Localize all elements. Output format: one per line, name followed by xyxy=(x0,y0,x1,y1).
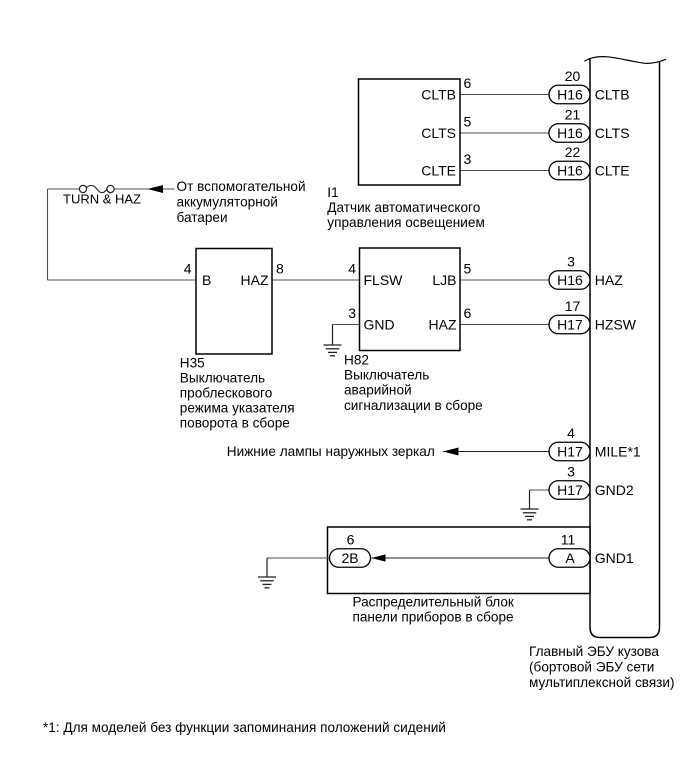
connector oval H17 pin 17 (HZSW) xyxy=(549,315,590,334)
H82 pin number 4 xyxy=(348,260,356,276)
svg-text:H17: H17 xyxy=(557,316,583,332)
connector oval H16 pin 3 (HAZ) xyxy=(549,271,590,290)
H82 pin number 3 xyxy=(348,305,356,321)
svg-text:управления освещением: управления освещением xyxy=(327,215,485,230)
H35 pin number 4 xyxy=(184,260,192,276)
svg-text:Выключатель: Выключатель xyxy=(344,368,429,383)
svg-text:CLTE: CLTE xyxy=(421,162,456,178)
junction block box: instrument panel junction block xyxy=(328,527,591,594)
wire H17 GND2 to ground xyxy=(530,490,550,509)
net label GND1 xyxy=(595,550,634,566)
H82 pin label FLSW xyxy=(364,272,404,288)
svg-text:H82: H82 xyxy=(344,352,369,367)
I1 pin number 3 xyxy=(464,151,472,167)
svg-text:5: 5 xyxy=(464,113,472,129)
svg-text:CLTB: CLTB xyxy=(595,86,630,102)
H82 box: hazard warning switch xyxy=(360,248,461,351)
svg-text:3: 3 xyxy=(464,151,472,167)
text: lower lamps of outer mirrors xyxy=(227,444,435,459)
svg-text:LJB: LJB xyxy=(432,272,456,288)
net label HAZ xyxy=(595,272,623,288)
svg-text:17: 17 xyxy=(565,298,581,314)
connector oval H16 pin 22 (CLTE) xyxy=(549,161,590,180)
svg-text:H16: H16 xyxy=(557,86,583,102)
net label CLTE xyxy=(595,162,630,178)
label I1 sensor xyxy=(327,185,485,230)
net label CLTS xyxy=(595,125,630,141)
ground for GND2 xyxy=(521,509,539,520)
I1 pin number 5 xyxy=(464,113,472,129)
footnote *1 xyxy=(43,720,446,735)
svg-text:поворота в сборе: поворота в сборе xyxy=(180,416,290,431)
label TURN & HAZ xyxy=(63,192,141,207)
svg-text:H16: H16 xyxy=(557,272,583,288)
connector oval H16 pin 20 (CLTB) xyxy=(549,85,590,104)
svg-text:6: 6 xyxy=(464,305,472,321)
label junction block xyxy=(353,594,515,624)
svg-text:HAZ: HAZ xyxy=(429,316,457,332)
wire H82 GND to ground xyxy=(333,325,360,346)
connector oval H17 pin 4 (MILE*1) xyxy=(549,442,590,461)
svg-text:Выключатель: Выключатель xyxy=(180,371,265,386)
svg-text:3: 3 xyxy=(348,305,356,321)
pin number 22 xyxy=(565,144,581,160)
connector oval A pin 11 (GND1) xyxy=(549,549,590,568)
H82 pin number 5 xyxy=(464,260,472,276)
svg-text:H35: H35 xyxy=(180,356,205,371)
svg-text:CLTS: CLTS xyxy=(421,125,456,141)
svg-text:Главный ЭБУ кузова: Главный ЭБУ кузова xyxy=(529,644,659,659)
svg-text:21: 21 xyxy=(565,106,581,122)
H35 pin label B xyxy=(202,272,211,288)
wire I1 CLTB to H16 pin 20 xyxy=(460,94,551,96)
connector oval H17 pin 3 (GND2) xyxy=(549,481,590,500)
ground for 2B xyxy=(258,577,276,588)
svg-text:режима указателя: режима указателя xyxy=(180,401,295,416)
fuse TURN & HAZ xyxy=(48,185,115,192)
wire 2B to ground (left) xyxy=(267,558,330,577)
wire H82 LJB to H16 pin 3 xyxy=(460,279,551,281)
svg-text:MILE*1: MILE*1 xyxy=(595,443,641,459)
H35 pin label HAZ xyxy=(241,272,269,288)
svg-text:20: 20 xyxy=(565,68,581,84)
ground for H82 GND xyxy=(324,345,342,356)
net label GND2 xyxy=(595,482,634,498)
pin number 6 xyxy=(347,531,355,547)
svg-text:H17: H17 xyxy=(557,482,583,498)
H82 pin number 6 xyxy=(464,305,472,321)
label H35 switch xyxy=(180,356,295,431)
svg-text:HAZ: HAZ xyxy=(595,272,623,288)
pin number 3 xyxy=(567,253,575,269)
svg-text:аварийной: аварийной xyxy=(344,383,412,398)
svg-text:панели приборов в сборе: панели приборов в сборе xyxy=(353,610,514,625)
svg-text:аккумуляторной: аккумуляторной xyxy=(177,195,278,210)
svg-text:2B: 2B xyxy=(341,550,358,566)
svg-text:3: 3 xyxy=(567,463,575,479)
svg-text:I1: I1 xyxy=(327,185,338,200)
H82 pin label HAZ xyxy=(429,316,457,332)
pin number 17 xyxy=(565,298,581,314)
wire H82 HAZ to H17 pin 17 xyxy=(460,324,551,326)
arrow from auxiliary battery (points left) xyxy=(148,185,164,193)
svg-text:5: 5 xyxy=(464,260,472,276)
svg-text:GND1: GND1 xyxy=(595,550,634,566)
H82 pin label GND xyxy=(364,316,395,332)
svg-text:(бортовой ЭБУ сети: (бортовой ЭБУ сети xyxy=(529,659,654,674)
wire I1 CLTS to H16 pin 21 xyxy=(460,132,551,134)
svg-text:6: 6 xyxy=(464,75,472,91)
pin number 11 xyxy=(561,531,576,547)
net label HZSW xyxy=(595,316,637,332)
connector oval H16 pin 21 (CLTS) xyxy=(549,124,590,143)
H35 pin number 8 xyxy=(276,260,284,276)
H35 box: turn signal flasher switch xyxy=(196,249,272,355)
H82 pin label LJB xyxy=(432,272,456,288)
svg-text:От вспомогательной: От вспомогательной xyxy=(177,179,306,194)
svg-text:GND2: GND2 xyxy=(595,482,634,498)
svg-text:11: 11 xyxy=(561,531,576,547)
pin number 3 xyxy=(567,463,575,479)
svg-text:FLSW: FLSW xyxy=(364,272,404,288)
svg-text:мультиплексной связи): мультиплексной связи) xyxy=(529,675,675,690)
svg-text:6: 6 xyxy=(347,531,355,547)
I1 pin label CLTB xyxy=(421,86,456,102)
svg-text:H16: H16 xyxy=(557,162,583,178)
net label MILE*1 xyxy=(595,443,641,459)
pin number 4 xyxy=(567,425,575,441)
svg-text:B: B xyxy=(202,272,211,288)
svg-text:HZSW: HZSW xyxy=(595,316,637,332)
svg-text:проблескового: проблескового xyxy=(180,386,272,401)
svg-text:4: 4 xyxy=(348,260,356,276)
wire from battery arrow to fuse xyxy=(114,188,175,190)
svg-text:батареи: батареи xyxy=(177,210,228,225)
I1 pin label CLTE xyxy=(421,162,456,178)
connector oval 2B pin 6 xyxy=(330,549,371,568)
pin number 21 xyxy=(565,106,581,122)
svg-text:GND: GND xyxy=(364,316,395,332)
svg-text:CLTS: CLTS xyxy=(595,125,630,141)
I1 pin label CLTS xyxy=(421,125,456,141)
svg-text:TURN & HAZ: TURN & HAZ xyxy=(63,192,141,207)
svg-text:Нижние лампы наружных зеркал: Нижние лампы наружных зеркал xyxy=(227,444,435,459)
text: from auxiliary battery xyxy=(177,179,306,225)
svg-text:4: 4 xyxy=(184,260,192,276)
svg-text:*1: Для моделей без функции за: *1: Для моделей без функции запоминания … xyxy=(43,720,446,735)
ECU boundary: main body ECU xyxy=(585,57,667,638)
svg-text:A: A xyxy=(565,550,575,566)
label H82 switch xyxy=(344,352,483,413)
wire I1 CLTE to H16 pin 22 xyxy=(460,170,551,172)
wire fuse down to H35 pin B xyxy=(48,189,197,280)
svg-text:HAZ: HAZ xyxy=(241,272,269,288)
svg-text:H16: H16 xyxy=(557,125,583,141)
svg-text:22: 22 xyxy=(565,144,581,160)
wire and arrow to lower outer mirror lamps xyxy=(443,448,549,456)
svg-text:8: 8 xyxy=(276,260,284,276)
svg-text:сигнализации в сборе: сигнализации в сборе xyxy=(344,398,483,413)
svg-text:Распределительный блок: Распределительный блок xyxy=(353,594,515,609)
I1 box: automatic light control sensor xyxy=(359,79,461,185)
wire H35 HAZ to H82 FLSW xyxy=(272,279,360,281)
wire A to 2B with arrow into 2B xyxy=(372,554,550,561)
svg-text:CLTB: CLTB xyxy=(421,86,456,102)
pin number 20 xyxy=(565,68,581,84)
svg-text:4: 4 xyxy=(567,425,575,441)
label main body ECU xyxy=(529,644,675,690)
net label CLTB xyxy=(595,86,630,102)
svg-text:Датчик автоматического: Датчик автоматического xyxy=(327,200,480,215)
svg-text:H17: H17 xyxy=(557,443,583,459)
I1 pin number 6 xyxy=(464,75,472,91)
svg-text:CLTE: CLTE xyxy=(595,162,630,178)
svg-text:3: 3 xyxy=(567,253,575,269)
